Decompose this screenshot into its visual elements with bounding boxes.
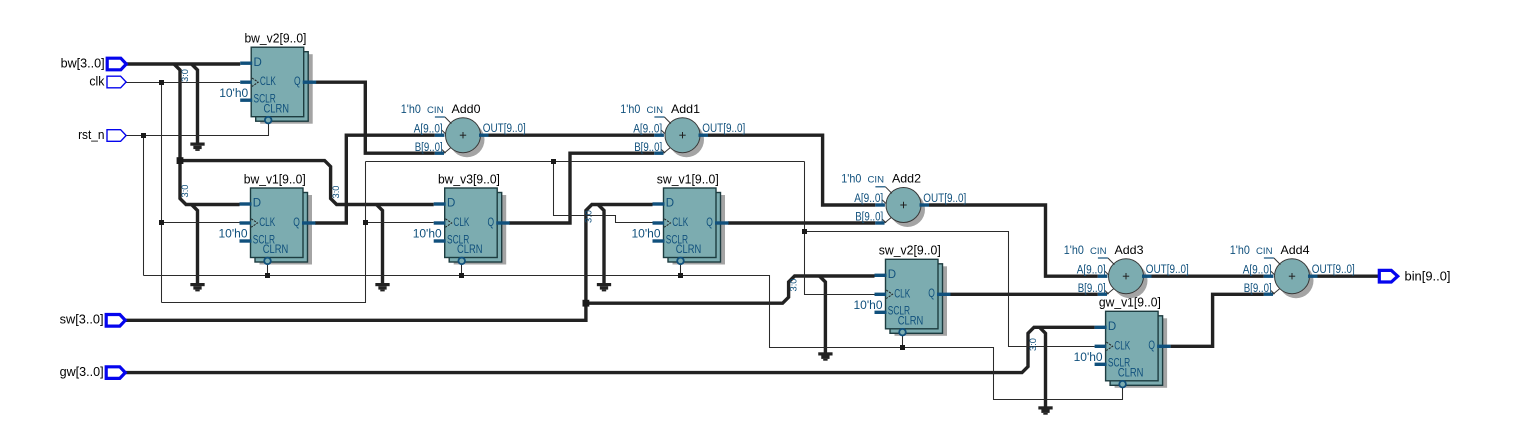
svg-text:CLK: CLK [259,217,275,229]
svg-text:Q: Q [706,217,713,229]
adder Add2 [841,172,966,227]
svg-text:Q: Q [1148,340,1155,352]
svg-text:sw[3..0]: sw[3..0] [60,313,104,327]
svg-text:B[9..0]: B[9..0] [634,142,662,154]
register gw_v1 [1074,296,1171,388]
svg-text:A[9..0]: A[9..0] [633,123,662,135]
register bw_v1 [219,172,316,264]
svg-text:CIN: CIN [1256,246,1273,256]
svg-text:CLK: CLK [894,288,910,300]
junction rst_n bw_v1 stem [265,273,270,278]
adder Add4 [1230,243,1355,298]
input port sw[3..0] [60,313,126,327]
wire clk branch to bw_v3.CLK [366,222,434,224]
wire sw_v2 D ground tap [819,276,825,353]
svg-text:Add0: Add0 [452,102,481,116]
svg-text:bin[9..0]: bin[9..0] [1405,270,1451,284]
adder Add3 [1064,243,1189,298]
wire clk bottom run y=302.5 [162,162,366,303]
wire bw slice horiz y=160.6 to bw_v3 [180,161,434,205]
svg-text:bw_v1[9..0]: bw_v1[9..0] [244,172,306,186]
svg-text:10'h0: 10'h0 [219,86,248,100]
junction bw slice T [177,157,184,164]
wire clk branch to gw_v1.CLK [805,232,1095,347]
svg-text:D: D [253,198,261,210]
svg-text:Add1: Add1 [671,102,700,116]
svg-text:10'h0: 10'h0 [413,227,442,241]
svg-text:sw_v2[9..0]: sw_v2[9..0] [879,244,941,258]
ground [190,283,204,291]
svg-text:B[9..0]: B[9..0] [415,142,443,154]
wire gw bus [125,327,1094,372]
svg-text:A[9..0]: A[9..0] [1077,264,1106,276]
svg-text:D: D [888,269,896,281]
input port clk [89,74,126,88]
wire sw_v1 D ground tap [598,205,604,285]
wire rst_n main run y=275.5 [144,276,1123,400]
junction clk to bw_v3 [363,220,368,225]
svg-text:1'h0: 1'h0 [401,102,421,116]
svg-text:CLRN: CLRN [264,103,290,115]
input port bw[3..0] [61,56,127,70]
svg-text:Q: Q [928,288,935,300]
wire bw slice vert to bw_v1.D [180,161,240,205]
ground [1038,406,1052,414]
junction clk to sw_v1 [551,159,556,164]
wire Add3.OUT to Add4.A [1152,275,1264,278]
wire bw_v3 D ground tap [377,205,383,285]
wire clk wire to bw_v2.CLK [126,82,240,84]
svg-text:10'h0: 10'h0 [854,298,883,312]
junction rst_n at x=143 [141,133,146,138]
wire clk branch to bw_v1.CLK [162,222,240,224]
wire clk jog to sw_v1.CLK [554,162,653,223]
svg-text:gw[3..0]: gw[3..0] [60,365,104,379]
wire bw_v1.Q to Add0.A [315,135,435,223]
wire rst_n wire to bw_v2.CLRN [126,124,269,136]
svg-text:CLRN: CLRN [898,315,924,327]
svg-text:3:0: 3:0 [1028,338,1038,351]
svg-text:A[9..0]: A[9..0] [414,123,443,135]
ground [190,143,204,151]
svg-text:1'h0: 1'h0 [1230,243,1250,257]
svg-text:CLRN: CLRN [263,244,289,256]
svg-text:CLK: CLK [260,76,276,88]
wire clk vertical x=161 [161,83,163,303]
svg-text:CLRN: CLRN [457,244,483,256]
svg-text:CLK: CLK [1114,340,1130,352]
svg-text:Add4: Add4 [1281,243,1310,257]
svg-text:3:0: 3:0 [584,210,594,223]
svg-text:A[9..0]: A[9..0] [854,193,883,205]
svg-text:Q: Q [294,76,301,88]
ground [597,283,611,291]
wire bw bus to bw_v2.D [126,62,240,65]
adder Add0 [401,102,526,157]
svg-text:D: D [666,198,674,210]
svg-text:3:0: 3:0 [180,69,190,82]
junction clk at x=161 [159,80,164,85]
adder Add1 [620,102,745,157]
svg-text:OUT[9..0]: OUT[9..0] [483,123,526,135]
svg-text:A[9..0]: A[9..0] [1243,264,1272,276]
wire gw_v1 D ground tap [1040,327,1046,407]
svg-text:CIN: CIN [427,105,444,115]
ground [375,283,389,291]
svg-text:bw[3..0]: bw[3..0] [61,56,105,70]
svg-text:Q: Q [488,217,495,229]
svg-text:Q: Q [293,217,300,229]
svg-text:sw_v1[9..0]: sw_v1[9..0] [657,172,719,186]
svg-text:10'h0: 10'h0 [1074,350,1103,364]
svg-text:rst_n: rst_n [78,128,104,142]
svg-text:OUT[9..0]: OUT[9..0] [1146,264,1189,276]
svg-text:OUT[9..0]: OUT[9..0] [702,123,745,135]
wire sw_v2.CLRN stem [902,335,904,347]
svg-text:B[9..0]: B[9..0] [1244,283,1272,295]
svg-text:10'h0: 10'h0 [632,227,661,241]
register sw_v1 [632,172,729,264]
ground [818,352,832,360]
svg-text:D: D [447,198,455,210]
junction clk to gw_v1 branch [802,229,807,234]
svg-text:Add3: Add3 [1115,243,1144,257]
input port rst_n [78,128,126,142]
wire bw_v3.CLRN stem [461,264,463,276]
wire gw_v1.Q to Add4.B [1171,294,1264,346]
svg-text:CIN: CIN [868,175,885,185]
wire sw_v2.Q to Add3.B [951,293,1098,296]
junction rst_n sw_v2 stem [900,345,905,350]
svg-text:1'h0: 1'h0 [620,102,640,116]
register bw_v3 [413,172,510,264]
svg-text:3:0: 3:0 [331,186,341,199]
wire Add2.OUT to Add3.A [929,205,1098,276]
register bw_v2 [219,32,316,124]
wire rst_n vertical x=143 [143,136,145,276]
junction sw bus T [583,300,590,307]
wire bw bus ground tap x=197.5 [192,64,198,144]
wire Add1.OUT to Add2.A [708,135,875,205]
svg-text:1'h0: 1'h0 [1064,243,1084,257]
wire sw bus [125,205,652,321]
svg-text:D: D [254,57,262,69]
svg-text:CLRN: CLRN [1118,367,1144,379]
svg-text:OUT[9..0]: OUT[9..0] [923,193,966,205]
wire bw_v3.Q to Add1.B [509,153,654,223]
wire sw_v1.CLRN stem [680,264,682,276]
svg-text:CIN: CIN [1090,246,1107,256]
svg-text:3:0: 3:0 [180,185,190,198]
wire clk drop to sw_v2.CLK [805,162,875,295]
register sw_v2 [854,244,951,336]
wire clk top run y=161.5 [366,161,805,163]
junction clk to bw_v1 [159,220,164,225]
wire sw bus branch to sw_v2.D [586,276,875,303]
svg-text:clk: clk [89,74,105,88]
wire bw bus tap down x=180 [174,64,180,161]
svg-text:B[9..0]: B[9..0] [855,212,883,224]
svg-text:CLK: CLK [453,217,469,229]
svg-text:bw_v3[9..0]: bw_v3[9..0] [438,172,500,186]
svg-text:B[9..0]: B[9..0] [1078,283,1106,295]
wire bw_v2.Q to Add0.B [316,82,435,153]
svg-text:bw_v2[9..0]: bw_v2[9..0] [244,32,306,46]
svg-text:OUT[9..0]: OUT[9..0] [1312,264,1355,276]
wire bw_v1.CLRN stem [267,264,269,276]
wire sw_v1.Q to Add2.B [728,221,875,224]
svg-text:D: D [1108,321,1116,333]
svg-text:Add2: Add2 [892,172,921,186]
junction rst_n bw_v3 stem [459,273,464,278]
svg-text:CLK: CLK [672,217,688,229]
wire bw_v1 D ground tap [192,205,198,285]
svg-text:3:0: 3:0 [788,279,798,292]
svg-text:10'h0: 10'h0 [219,227,248,241]
output port bin[9..0] [1379,270,1450,284]
svg-text:CIN: CIN [647,105,664,115]
input port gw[3..0] [60,365,126,379]
wire Add0.OUT to Add1.A [489,133,655,136]
junction rst_n sw_v1 stem [678,273,683,278]
wire Add4.OUT to bin port [1318,275,1380,278]
svg-text:CLRN: CLRN [676,244,702,256]
svg-text:1'h0: 1'h0 [841,172,861,186]
